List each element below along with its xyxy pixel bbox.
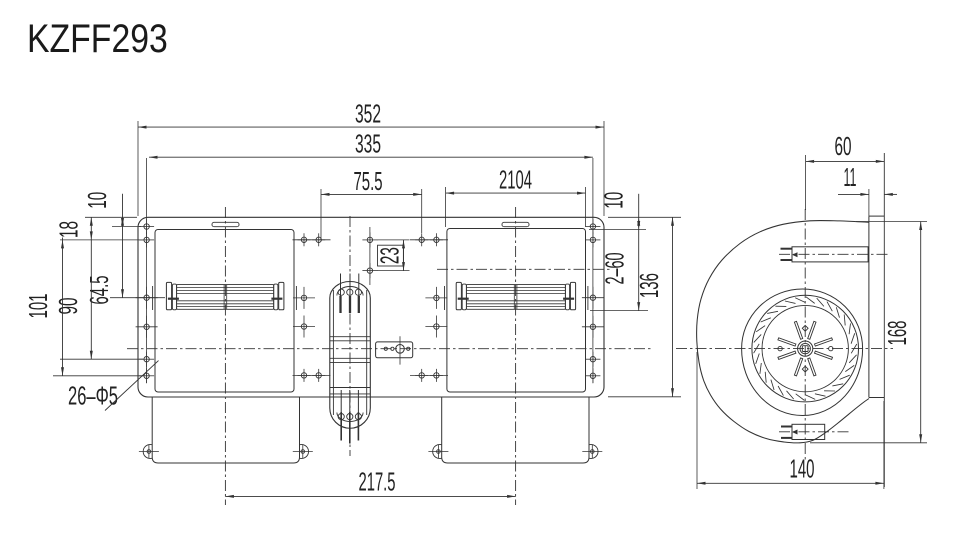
dim 64.5 [84, 276, 165, 305]
svg-text:18: 18 [54, 221, 84, 238]
wheel disc circle [762, 305, 848, 391]
svg-text:23: 23 [375, 247, 405, 264]
dim 101 [23, 238, 143, 376]
dim 23 boxed [375, 240, 410, 271]
svg-text:2–60: 2–60 [600, 253, 630, 285]
svg-text:KZFF293: KZFF293 [27, 15, 168, 60]
mounting holes outer columns [136, 219, 604, 383]
left blower wheel grille [166, 282, 284, 309]
dim 18 [54, 217, 144, 359]
dim 168 [810, 222, 927, 443]
dim 10 left [82, 192, 141, 298]
label 26-dia5 with leader [68, 361, 159, 411]
dim 11 [838, 162, 897, 216]
bottom port tube [781, 424, 825, 439]
svg-text:64.5: 64.5 [84, 276, 114, 305]
svg-text:2104: 2104 [499, 165, 532, 195]
left outlet duct [139, 398, 313, 464]
right outlet duct [428, 398, 602, 464]
centerline left wheel vertical [224, 207, 226, 505]
center holes (23 dim pair) [362, 227, 377, 285]
right blower wheel grille [456, 282, 575, 309]
volute scroll outline (side view) [697, 221, 869, 443]
dim 335 [149, 129, 593, 159]
main mounting plate (front view) [138, 217, 604, 397]
bottom port centerline [779, 431, 850, 433]
centerline horizontal right unit [437, 268, 610, 270]
left blower housing [153, 230, 297, 393]
centerline motor vertical [349, 216, 351, 456]
title KZFF293 [27, 15, 168, 60]
svg-text:352: 352 [355, 99, 381, 129]
hub and spokes [778, 321, 833, 376]
svg-text:60: 60 [835, 131, 852, 161]
extension line plate top left [85, 216, 137, 218]
dim 140 [697, 352, 884, 489]
top slot tab right [502, 222, 529, 226]
right blower housing [445, 229, 588, 393]
top port centerline [779, 253, 890, 255]
mounting holes inner pairs [293, 233, 449, 382]
centerline horizontal main [127, 348, 652, 350]
svg-text:335: 335 [355, 129, 381, 159]
dim 217.5 [225, 467, 515, 498]
fan wheel rim with blade teeth [752, 295, 859, 402]
dim 2104 [446, 165, 586, 227]
dim 90 [53, 298, 143, 360]
dim 352 [138, 99, 604, 217]
top slot tab left [212, 222, 239, 226]
terminal connector box [376, 336, 413, 364]
motor [330, 274, 371, 444]
svg-text:90: 90 [53, 298, 83, 315]
dim 75.5 [321, 166, 422, 240]
svg-text:10: 10 [82, 192, 112, 209]
right view centerlines [676, 209, 893, 462]
dim 60 [806, 131, 885, 210]
svg-text:217.5: 217.5 [359, 467, 396, 497]
svg-text:136: 136 [634, 273, 664, 298]
svg-text:168: 168 [882, 321, 912, 346]
dim 10 right and 2-60 [589, 192, 648, 311]
svg-text:101: 101 [23, 294, 53, 319]
mounting flange plate [869, 153, 884, 487]
svg-text:140: 140 [790, 454, 815, 484]
hub bolt holes [778, 325, 833, 372]
dim 136 [608, 217, 681, 396]
svg-text:10: 10 [599, 192, 629, 209]
svg-text:11: 11 [844, 162, 857, 192]
svg-text:26–Φ5: 26–Φ5 [68, 381, 118, 411]
top port tube [781, 247, 869, 262]
hole column extension lines [147, 158, 593, 383]
volute inner wall spiral [742, 289, 863, 416]
centerline right wheel vertical [515, 207, 517, 505]
svg-text:75.5: 75.5 [354, 166, 383, 196]
